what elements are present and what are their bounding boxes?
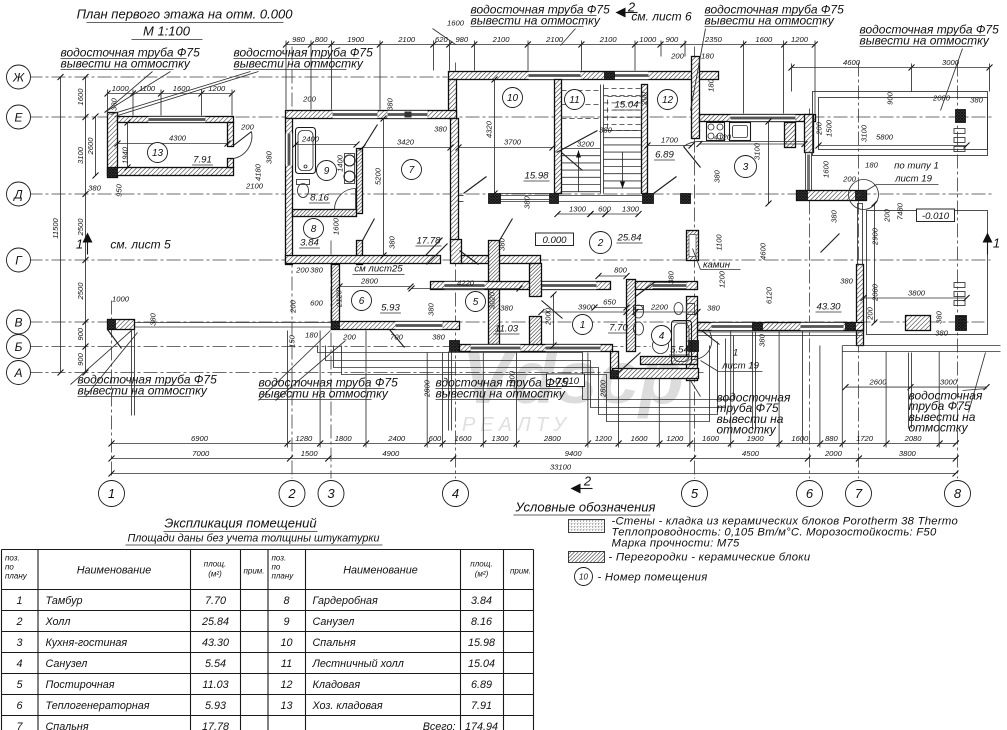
svg-text:1900: 1900: [347, 35, 365, 44]
svg-text:600: 600: [310, 299, 323, 308]
svg-text:8.16: 8.16: [471, 616, 492, 628]
svg-text:380: 380: [432, 333, 445, 342]
svg-text:1600: 1600: [822, 160, 831, 178]
svg-text:3020: 3020: [488, 291, 497, 309]
svg-text:1100: 1100: [715, 234, 724, 251]
svg-text:Наименование: Наименование: [77, 565, 152, 577]
svg-text:180: 180: [865, 161, 878, 170]
svg-text:10: 10: [579, 573, 588, 582]
svg-text:см. лист 6: см. лист 6: [631, 10, 692, 24]
svg-text:380: 380: [427, 302, 436, 315]
svg-text:25.84: 25.84: [201, 616, 229, 628]
svg-text:3420: 3420: [397, 138, 415, 147]
svg-text:Площади даны без учета толщины: Площади даны без учета толщины штукатурк…: [127, 533, 379, 545]
svg-text:17.78: 17.78: [202, 721, 229, 730]
svg-text:прим.: прим.: [243, 567, 264, 576]
svg-text:1: 1: [993, 236, 1000, 251]
svg-text:380: 380: [149, 312, 158, 325]
svg-text:880: 880: [825, 434, 838, 443]
svg-text:поз.: поз.: [272, 554, 287, 563]
svg-text:25.84: 25.84: [616, 233, 641, 244]
svg-text:4320: 4320: [485, 120, 494, 138]
svg-text:Всего:: Всего:: [423, 721, 456, 730]
svg-text:5.93: 5.93: [381, 303, 400, 314]
svg-text:1000: 1000: [112, 295, 130, 304]
svg-text:Спальня: Спальня: [313, 637, 356, 649]
svg-text:-0.010: -0.010: [922, 211, 950, 222]
svg-text:2000: 2000: [544, 307, 553, 326]
svg-text:8: 8: [283, 595, 289, 607]
svg-text:Ж: Ж: [12, 70, 25, 84]
svg-text:7.91: 7.91: [471, 700, 492, 712]
svg-text:6120: 6120: [765, 286, 774, 304]
svg-text:Гардеробная: Гардеробная: [313, 595, 379, 607]
svg-text:А: А: [13, 366, 22, 380]
svg-text:1940: 1940: [121, 146, 130, 164]
svg-text:2080: 2080: [932, 94, 951, 103]
svg-text:см. лист 5: см. лист 5: [110, 238, 171, 252]
svg-text:1500: 1500: [301, 449, 319, 458]
svg-text:2000: 2000: [824, 449, 843, 458]
svg-text:380: 380: [599, 126, 612, 135]
svg-text:600: 600: [598, 205, 611, 214]
svg-text:3200: 3200: [577, 140, 595, 149]
svg-text:11: 11: [569, 95, 579, 106]
svg-text:380: 380: [88, 184, 101, 193]
svg-text:1600: 1600: [76, 88, 85, 106]
svg-text:Б: Б: [15, 340, 23, 354]
svg-text:650: 650: [603, 298, 616, 307]
svg-text:4: 4: [452, 486, 459, 501]
svg-text:380: 380: [713, 169, 722, 182]
svg-text:174.94: 174.94: [465, 721, 498, 730]
svg-text:6: 6: [359, 296, 365, 307]
svg-text:поз.: поз.: [5, 554, 20, 563]
svg-text:4600: 4600: [843, 58, 861, 67]
svg-text:1600: 1600: [173, 84, 191, 93]
svg-text:2600: 2600: [869, 378, 888, 387]
svg-text:4500: 4500: [742, 449, 760, 458]
svg-text:2100: 2100: [245, 182, 264, 191]
svg-text:Кухня-гостиная: Кухня-гостиная: [46, 637, 128, 649]
svg-text:200: 200: [240, 123, 254, 132]
svg-text:Е: Е: [14, 110, 23, 124]
svg-text:1000: 1000: [112, 84, 130, 93]
svg-text:15.04: 15.04: [468, 658, 495, 670]
svg-text:2400: 2400: [301, 135, 320, 144]
svg-text:2500: 2500: [76, 282, 85, 301]
svg-text:33100: 33100: [550, 463, 572, 472]
svg-text:200: 200: [289, 299, 298, 313]
svg-text:1600: 1600: [455, 434, 473, 443]
svg-text:0.000: 0.000: [542, 235, 567, 246]
svg-text:2080: 2080: [904, 434, 923, 443]
svg-text:700: 700: [390, 333, 403, 342]
svg-text:1600: 1600: [755, 35, 773, 44]
svg-text:5.54: 5.54: [670, 345, 689, 356]
svg-text:4: 4: [16, 658, 22, 670]
svg-text:3: 3: [327, 486, 335, 501]
svg-text:10: 10: [280, 637, 292, 649]
svg-text:380: 380: [310, 266, 323, 275]
svg-text:1: 1: [733, 348, 738, 359]
svg-text:2100: 2100: [492, 35, 511, 44]
svg-text:3700: 3700: [504, 138, 522, 147]
svg-text:180: 180: [707, 78, 716, 91]
svg-text:4300: 4300: [169, 134, 187, 143]
svg-text:1: 1: [108, 486, 115, 501]
svg-text:5: 5: [473, 297, 479, 308]
svg-text:лист 19: лист 19: [721, 361, 760, 372]
svg-text:11: 11: [281, 658, 292, 670]
svg-text:3100: 3100: [76, 146, 85, 164]
svg-text:9: 9: [324, 166, 330, 177]
svg-text:43.30: 43.30: [202, 637, 229, 649]
svg-text:1200: 1200: [718, 270, 727, 288]
svg-text:7480: 7480: [896, 202, 905, 220]
svg-text:8: 8: [954, 486, 962, 501]
svg-text:11500: 11500: [51, 217, 60, 238]
svg-text:4180: 4180: [254, 163, 263, 181]
svg-text:1200: 1200: [791, 35, 809, 44]
svg-text:380: 380: [667, 270, 676, 283]
svg-text:камин: камин: [703, 260, 731, 271]
svg-text:980: 980: [455, 35, 468, 44]
svg-text:Экспликация помещений: Экспликация помещений: [164, 516, 316, 531]
svg-text:(м²): (м²): [208, 570, 222, 579]
svg-text:9: 9: [283, 616, 289, 628]
svg-text:1500: 1500: [825, 119, 834, 137]
svg-text:Д: Д: [12, 187, 23, 201]
svg-text:15.98: 15.98: [468, 637, 495, 649]
svg-text:7: 7: [16, 721, 23, 730]
svg-text:3800: 3800: [908, 289, 926, 298]
svg-text:43.30: 43.30: [816, 302, 841, 313]
svg-text:15.04: 15.04: [614, 100, 638, 111]
svg-text:1100: 1100: [139, 84, 156, 93]
svg-text:200: 200: [640, 91, 649, 105]
svg-text:2400: 2400: [387, 434, 406, 443]
svg-text:1400: 1400: [336, 154, 345, 172]
svg-text:7: 7: [409, 165, 415, 176]
svg-text:3000: 3000: [942, 58, 960, 67]
svg-text:11.03: 11.03: [495, 324, 519, 335]
svg-text:Условные обозначения: Условные обозначения: [515, 500, 656, 515]
svg-text:6: 6: [806, 486, 814, 501]
svg-text:2100: 2100: [599, 35, 618, 44]
svg-text:380: 380: [434, 125, 447, 134]
svg-text:План первого этажа на отм. 0.0: План первого этажа на отм. 0.000: [77, 7, 294, 22]
svg-text:8: 8: [311, 224, 317, 235]
svg-text:Спальня: Спальня: [46, 721, 89, 730]
svg-text:площ.: площ.: [204, 560, 226, 569]
svg-text:отмостку: отмостку: [909, 421, 969, 435]
svg-text:7.70: 7.70: [609, 323, 628, 334]
svg-text:2100: 2100: [545, 35, 564, 44]
svg-text:800: 800: [614, 266, 627, 275]
svg-text:по: по: [272, 563, 281, 572]
svg-text:5.93: 5.93: [205, 700, 226, 712]
svg-text:2080: 2080: [871, 283, 880, 302]
svg-text:200: 200: [815, 121, 824, 135]
svg-text:380: 380: [935, 329, 948, 338]
svg-text:200: 200: [302, 95, 316, 104]
svg-text:15.98: 15.98: [524, 171, 549, 182]
svg-text:380: 380: [265, 150, 274, 163]
svg-text:7: 7: [855, 486, 863, 501]
svg-text:9400: 9400: [565, 449, 583, 458]
svg-text:380: 380: [758, 333, 767, 346]
svg-text:7000: 7000: [192, 449, 210, 458]
svg-text:Марка прочности: М75: Марка прочности: М75: [612, 538, 741, 550]
svg-text:380: 380: [500, 304, 513, 313]
svg-text:17.78: 17.78: [416, 236, 441, 247]
svg-text:2: 2: [287, 486, 296, 501]
svg-text:200: 200: [342, 333, 356, 342]
svg-text:плану: плану: [5, 572, 28, 581]
svg-text:12: 12: [662, 95, 674, 106]
svg-text:5800: 5800: [876, 133, 894, 142]
svg-text:200: 200: [670, 52, 684, 61]
svg-text:Хоз. кладовая: Хоз. кладовая: [312, 700, 383, 712]
svg-text:2800: 2800: [599, 379, 608, 398]
svg-text:лист 19: лист 19: [894, 174, 933, 185]
svg-text:1720: 1720: [856, 434, 874, 443]
svg-text:380: 380: [498, 237, 507, 250]
svg-text:4120: 4120: [714, 133, 732, 142]
svg-text:2800: 2800: [543, 434, 562, 443]
svg-text:950: 950: [115, 183, 124, 196]
svg-text:4600: 4600: [759, 242, 768, 260]
svg-text:180: 180: [701, 52, 714, 61]
svg-text:380: 380: [388, 235, 397, 248]
svg-text:380: 380: [970, 96, 983, 105]
svg-text:600: 600: [958, 315, 967, 328]
svg-text:2500: 2500: [76, 218, 85, 237]
svg-text:Теплогенераторная: Теплогенераторная: [46, 700, 150, 712]
svg-text:3: 3: [743, 162, 749, 173]
svg-text:2350: 2350: [704, 35, 723, 44]
svg-text:2800: 2800: [423, 379, 432, 398]
svg-text:1280: 1280: [295, 434, 313, 443]
svg-text:1600: 1600: [791, 434, 809, 443]
svg-text:1200: 1200: [208, 84, 226, 93]
svg-text:4900: 4900: [382, 449, 400, 458]
svg-text:2120: 2120: [335, 289, 344, 308]
svg-text:1200: 1200: [666, 434, 684, 443]
svg-text:5.54: 5.54: [205, 658, 226, 670]
svg-text:1200: 1200: [595, 434, 613, 443]
svg-text:1600: 1600: [447, 19, 465, 28]
svg-text:150: 150: [288, 334, 297, 347]
svg-text:6.89: 6.89: [655, 150, 674, 161]
svg-text:4220: 4220: [457, 279, 475, 288]
svg-text:380: 380: [830, 209, 839, 222]
svg-text:3: 3: [16, 637, 22, 649]
svg-text:1300: 1300: [622, 205, 640, 214]
svg-text:900: 900: [76, 327, 85, 340]
svg-text:Лестничный холл: Лестничный холл: [312, 658, 404, 670]
svg-text:2: 2: [597, 238, 604, 249]
svg-text:по: по: [5, 563, 14, 572]
svg-text:200: 200: [866, 306, 875, 320]
svg-text:Наименование: Наименование: [343, 565, 418, 577]
svg-text:см лист25: см лист25: [354, 264, 403, 275]
svg-text:13: 13: [280, 700, 292, 712]
svg-text:по типу 1: по типу 1: [894, 161, 939, 172]
svg-text:13: 13: [152, 148, 164, 159]
svg-text:5: 5: [691, 486, 699, 501]
svg-text:7.91: 7.91: [193, 155, 212, 166]
svg-text:380: 380: [707, 304, 720, 313]
svg-text:2200: 2200: [650, 303, 669, 312]
svg-text:2800: 2800: [360, 277, 379, 286]
svg-text:Кладовая: Кладовая: [313, 679, 361, 691]
svg-text:5200: 5200: [374, 167, 383, 185]
svg-text:2100: 2100: [397, 35, 416, 44]
svg-text:площ.: площ.: [470, 560, 492, 569]
svg-text:3.84: 3.84: [300, 238, 319, 249]
svg-text:6.89: 6.89: [471, 679, 492, 691]
svg-text:Санузел: Санузел: [46, 658, 88, 670]
svg-text:900: 900: [666, 35, 679, 44]
svg-text:380: 380: [935, 310, 944, 323]
svg-text:11.03: 11.03: [202, 679, 228, 691]
svg-text:6900: 6900: [191, 434, 209, 443]
svg-text:200: 200: [883, 208, 892, 222]
svg-text:1000: 1000: [639, 35, 657, 44]
svg-text:1600: 1600: [332, 217, 341, 235]
svg-text:380: 380: [840, 277, 853, 286]
svg-text:10: 10: [507, 93, 519, 104]
svg-text:2: 2: [583, 474, 592, 489]
svg-text:6: 6: [16, 700, 22, 712]
svg-text:1: 1: [76, 237, 83, 252]
svg-text:1800: 1800: [335, 434, 353, 443]
svg-text:3.84: 3.84: [471, 595, 492, 607]
svg-text:4: 4: [659, 331, 665, 342]
svg-text:12: 12: [280, 679, 292, 691]
svg-text:3900: 3900: [578, 303, 596, 312]
svg-text:3000: 3000: [940, 378, 958, 387]
svg-text:200: 200: [295, 266, 309, 275]
svg-text:800: 800: [315, 35, 328, 44]
svg-text:1: 1: [580, 320, 586, 331]
svg-text:3100: 3100: [753, 142, 762, 160]
svg-text:5: 5: [16, 679, 23, 691]
svg-text:180: 180: [305, 331, 318, 340]
svg-text:380: 380: [386, 97, 395, 110]
svg-text:отмостку: отмостку: [717, 423, 777, 437]
svg-text:М 1:100: М 1:100: [143, 24, 191, 39]
svg-text:620: 620: [435, 35, 448, 44]
svg-text:980: 980: [292, 35, 305, 44]
svg-text:Холл: Холл: [45, 616, 71, 628]
svg-text:2: 2: [15, 616, 22, 628]
svg-text:- Номер помещения: - Номер помещения: [598, 572, 708, 584]
svg-text:Санузел: Санузел: [313, 616, 355, 628]
svg-text:7.70: 7.70: [205, 595, 226, 607]
svg-text:1300: 1300: [492, 434, 510, 443]
svg-text:В: В: [14, 315, 22, 329]
svg-text:600: 600: [429, 434, 442, 443]
svg-text:3800: 3800: [899, 449, 917, 458]
svg-text:(м²): (м²): [475, 570, 489, 579]
svg-text:- Перегородки - керамические б: - Перегородки - керамические блоки: [609, 552, 811, 564]
svg-text:2600: 2600: [86, 137, 95, 156]
svg-text:1300: 1300: [569, 205, 587, 214]
svg-text:900: 900: [76, 352, 85, 365]
svg-text:Тамбур: Тамбур: [46, 595, 83, 607]
svg-text:плану: плану: [272, 572, 295, 581]
svg-text:900: 900: [886, 91, 895, 104]
svg-text:3100: 3100: [860, 124, 869, 142]
svg-text:380: 380: [523, 195, 532, 208]
svg-text:2900: 2900: [871, 227, 880, 246]
svg-text:1: 1: [16, 595, 22, 607]
svg-text:прим.: прим.: [510, 567, 531, 576]
svg-text:Постирочная: Постирочная: [46, 679, 115, 691]
svg-text:1600: 1600: [631, 434, 649, 443]
svg-text:8.16: 8.16: [310, 193, 329, 204]
svg-text:1700: 1700: [661, 136, 679, 145]
